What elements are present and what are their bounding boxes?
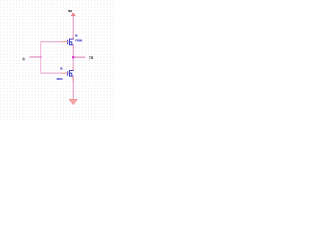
power VCC arrow symbol bbox=[71, 13, 75, 16]
junction node Out bbox=[72, 56, 74, 58]
transistor M2 (PMOS IRF9540) bbox=[68, 39, 74, 46]
pin segment red near source bbox=[72, 76, 74, 81]
wire gate bus vertical bbox=[40, 42, 42, 73]
svg-text:IRF540: IRF540 bbox=[57, 77, 63, 81]
wire gate bus bottom horizontal bbox=[41, 72, 62, 74]
wire VCC to M2 drain bbox=[72, 16, 74, 39]
pin M2 gate bbox=[62, 41, 68, 43]
wire In bbox=[30, 56, 41, 58]
svg-text:In: In bbox=[22, 57, 25, 63]
ground arrow (down power symbol) bbox=[69, 99, 77, 105]
wire Out bbox=[73, 56, 85, 58]
junction node In bus bbox=[40, 56, 42, 58]
pin M2 source bbox=[72, 45, 74, 48]
pin M1 gate bbox=[62, 72, 68, 74]
pin M2 drain bbox=[72, 36, 74, 39]
pin M1 drain bbox=[72, 68, 74, 71]
wire gate bus top horizontal bbox=[41, 41, 62, 43]
svg-text:IRF9540: IRF9540 bbox=[75, 38, 82, 42]
svg-text:Vc: Vc bbox=[68, 9, 72, 13]
svg-text:M2: M2 bbox=[75, 33, 78, 37]
wire M1 source to ground bbox=[72, 76, 74, 99]
transistor M1 (NMOS IRF540) bbox=[68, 70, 74, 77]
wire M2 source to M1 drain bbox=[72, 45, 74, 71]
